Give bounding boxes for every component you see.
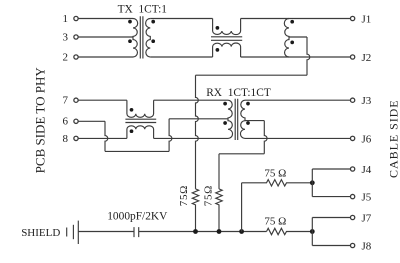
svg-text:J5: J5 [362,192,372,204]
wire choke L3 bottom to RX primary bottom [154,137,228,139]
pin 1 terminal [74,16,78,20]
J2 terminal [350,55,354,59]
svg-text:J6: J6 [362,133,372,145]
RX secondary polarity dot upper [246,102,250,106]
svg-text:1: 1 [63,13,69,25]
shield bar small [66,228,68,237]
transformer T2 RX primary winding [228,100,233,138]
J4 terminal [350,167,354,171]
svg-text:J7: J7 [362,213,372,225]
wire pin6 down with hop over pin8 wire [105,121,108,151]
wire choke L1 bottom to J2 [241,56,351,58]
transformer T1 TX secondary winding [146,19,151,58]
resistor R1 75ohm vertical with hops over three wires [196,75,199,189]
wire pin6 lower run [105,150,169,152]
TX primary polarity dot lower [128,39,132,43]
wire RX secondary bottom to J6 [245,137,350,139]
wire capacitor C1 to bus [139,231,267,233]
autotransformer L2 center-tapped winding [284,19,289,58]
svg-text:TX 1CT:1: TX 1CT:1 [118,3,168,15]
svg-text:75Ω: 75Ω [178,185,190,206]
pin 7 terminal [74,98,78,102]
pin 8 terminal [74,136,78,140]
L2 polarity dot upper [290,20,294,24]
wire pin3 to TX primary center tap [79,36,134,38]
wire RX tap down with hop over J6 wire [264,121,267,154]
TX secondary polarity dot upper [151,20,155,24]
wire L2 tap down with hop over J2 wire [307,37,310,75]
svg-text:6: 6 [63,116,69,128]
junction dot R3 branch [239,229,244,234]
shield bar mid [72,225,74,239]
wire pin1 to TX primary top [79,18,134,20]
bracket to J7 and J8 [312,218,350,246]
svg-text:J4: J4 [362,164,372,176]
choke L3 bottom polarity dot [130,129,134,133]
resistor R2 75ohm vertical [218,154,220,189]
choke L1 core [211,37,242,41]
junction dot R1 bus [193,229,198,234]
wire pin7 to choke L3 [79,99,127,101]
J1 terminal [350,16,354,20]
svg-text:PCB SIDE TO PHY: PCB SIDE TO PHY [32,67,47,174]
wire pin2 to TX primary bottom [79,56,134,58]
transformer T2 core [235,99,238,140]
wire R3 branch up [241,183,243,232]
resistor R4 75ohm horizontal in bus [267,228,313,234]
svg-text:CABLE SIDE: CABLE SIDE [386,99,400,178]
wire shield to capacitor C1 [78,231,134,233]
junction dot J7/J8 bracket [310,229,315,234]
wire choke L3 top to RX primary top [154,99,228,101]
wire TX secondary bottom to choke L1 [150,56,212,58]
L2 polarity dot lower [290,41,294,45]
common-mode choke L1 bottom winding [213,43,241,57]
svg-text:2: 2 [63,51,69,63]
transformer T1 TX primary winding [133,19,138,58]
wire L2 tap across to R1 [196,74,308,76]
junction dot R2 bus [217,229,222,234]
resistor R3 75ohm horizontal [242,180,313,186]
common-mode choke L3 bottom winding [127,126,154,139]
wire pin8 to choke L3 [79,137,127,139]
pin 2 terminal [74,55,78,59]
common-mode choke L3 top winding [127,100,154,117]
shield bar tall [77,221,79,244]
bracket to J4 and J5 [312,169,350,197]
TX secondary polarity dot lower [151,39,155,43]
choke L3 core [125,119,156,122]
wire RX tap across to R2 [219,153,264,155]
J8 terminal [350,243,354,247]
transformer T2 RX secondary winding [240,100,245,138]
svg-text:SHIELD: SHIELD [21,227,60,239]
svg-text:J2: J2 [362,52,372,64]
TX primary polarity dot upper [128,20,132,24]
svg-text:RX 1CT:1CT: RX 1CT:1CT [206,87,271,99]
wire RX secondary top to J3 [245,99,350,101]
RX primary polarity dot lower [223,121,227,125]
J5 terminal [350,194,354,198]
svg-text:J8: J8 [362,241,372,253]
svg-text:75 Ω: 75 Ω [264,216,286,228]
pin 6 terminal [74,119,78,123]
choke L1 top polarity dot [216,26,220,30]
choke L1 bottom polarity dot [216,48,220,52]
wire pin6 up with hop over pin8 wire [169,119,172,152]
svg-text:75Ω: 75Ω [203,185,215,206]
wire L2 center tap [289,36,307,38]
pin 3 terminal [74,35,78,39]
J3 terminal [350,98,354,102]
svg-text:J3: J3 [362,95,372,107]
svg-text:1000pF/2KV: 1000pF/2KV [107,210,168,222]
RX secondary polarity dot lower [246,121,250,125]
wire pin6 to RX primary center tap [169,118,228,120]
RX primary polarity dot upper [223,102,227,106]
svg-text:75 Ω: 75 Ω [264,167,286,179]
svg-text:3: 3 [63,31,69,43]
svg-text:J1: J1 [362,14,372,26]
svg-text:7: 7 [63,95,69,107]
wire TX secondary top to choke L1 [150,18,212,20]
junction dot J4/J5 bracket [310,180,315,185]
capacitor C1 plates [134,227,139,237]
J7 terminal [350,215,354,219]
svg-text:8: 8 [63,133,69,145]
choke L3 top polarity dot [130,108,134,112]
wire choke L1 top to J1 [241,18,351,20]
common-mode choke L1 top winding [213,19,241,35]
wire pin6 right [79,120,106,122]
J6 terminal [350,136,354,140]
wire RX secondary center tap [245,120,264,122]
transformer T1 core [140,16,143,58]
